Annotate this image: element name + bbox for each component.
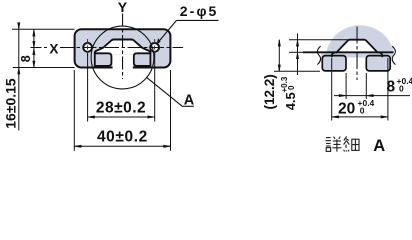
detail centerline: [356, 27, 358, 81]
break mark right: [392, 46, 395, 64]
hat interior white: [337, 40, 378, 53]
bridge right half (blue tab): [134, 53, 151, 66]
leader to A: [146, 77, 194, 106]
extension line tab bottom (left): [274, 70, 320, 72]
hole right: [150, 43, 159, 52]
svg-text:0: 0: [360, 105, 365, 115]
hole left: [83, 43, 92, 52]
hat profile: [332, 40, 382, 58]
centerline X (horizontal): [31, 47, 184, 49]
svg-text:Y: Y: [118, 0, 128, 15]
dimension 40±0.2: [74, 70, 170, 151]
svg-text:16±0.15: 16±0.15: [2, 78, 18, 129]
svg-text:X: X: [49, 42, 58, 57]
svg-text:20: 20: [338, 100, 355, 117]
dimension 8 (vertical): [33, 29, 35, 67]
extension line top-left: [12, 28, 75, 30]
leader arrowhead at hole: [157, 39, 160, 44]
extension line hat top (left): [289, 39, 348, 41]
svg-text:2-φ5: 2-φ5: [180, 3, 219, 19]
dimension 16±0.15: [18, 23, 20, 131]
svg-text:A: A: [373, 137, 385, 154]
tab right (detail): [366, 56, 390, 71]
dimension 8 +0.4/0 (detail): [334, 73, 410, 99]
hole left centerline: [87, 39, 89, 56]
svg-text:28±0.2: 28±0.2: [96, 100, 146, 117]
kanji 細 (drawn): [344, 136, 359, 151]
svg-text:A: A: [184, 93, 195, 109]
dimension 28±0.2: [88, 54, 155, 122]
center slot (white, open through bottom edge): [113, 55, 133, 70]
svg-text:40±0.2: 40±0.2: [97, 129, 148, 146]
part body: rounded plate 40x16: [75, 29, 171, 67]
dimension 4.5 +0.3/0: [296, 34, 298, 76]
kanji 詳 (drawn): [326, 137, 342, 152]
blue band under baseline: [321, 53, 393, 58]
break mark left: [317, 46, 320, 64]
svg-text:0: 0: [287, 85, 296, 90]
plate baseline: [303, 51, 394, 53]
detail boundary circle A: [91, 26, 154, 89]
hole right centerline: [154, 39, 156, 56]
svg-text:4.5: 4.5: [283, 92, 298, 110]
extension line bottom-left: [13, 67, 75, 69]
svg-text:8: 8: [19, 55, 33, 62]
centerline Y (vertical): [122, 14, 124, 80]
bridge left half (blue tab): [95, 53, 112, 66]
svg-text:0: 0: [399, 84, 404, 94]
tab left (detail): [322, 56, 346, 71]
svg-text:(12.2): (12.2): [262, 74, 277, 109]
dimension 20 +0.4/0: [332, 58, 388, 121]
blue dome ghost: [326, 25, 394, 52]
dimension (12.2): [278, 40, 280, 72]
central arch opening (white): [95, 40, 150, 55]
